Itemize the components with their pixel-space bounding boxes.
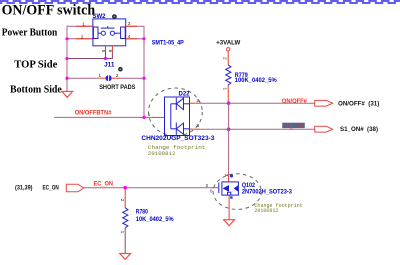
junction dot left vertical bottom wire: [65, 57, 68, 60]
svg-text:2: 2: [206, 183, 209, 189]
wire ON/OFFBTN#: [54, 116, 152, 118]
wire right vertical from SW2 pins 3,4: [126, 26, 144, 117]
svg-text:Power Button: Power Button: [2, 27, 58, 39]
junction dot S1_ON#/drain: [227, 127, 231, 131]
Q102 source loop detail: [228, 192, 231, 195]
wire J11 pin1 stub red: [99, 77, 105, 79]
top dashed border line row 1: [0, 0, 400, 2]
wire SW2 pin1 red stub: [76, 25, 93, 27]
svg-text:EC_ON: EC_ON: [43, 184, 60, 191]
Q102 source pin mark blue: [230, 196, 232, 198]
wire drain vertical: [228, 103, 230, 174]
wire SW2 pin6 red: [111, 46, 113, 51]
svg-text:+3VALW: +3VALW: [216, 39, 241, 46]
wire EC_ON net: [84, 187, 210, 189]
ground Q102: [223, 220, 235, 226]
junction dot R779/drain: [227, 101, 231, 105]
junction dot EC_ON/R780: [123, 186, 127, 190]
wire R780 top stub red: [124, 188, 126, 208]
svg-text:TOP Side: TOP Side: [14, 59, 57, 71]
highlighted net label S1_ON#: [282, 123, 305, 128]
wire J11 to right vertical: [120, 77, 144, 79]
svg-text:CHN202UGP_SOT323-3: CHN202UGP_SOT323-3: [141, 135, 214, 142]
svg-text:ON/OFF#: ON/OFF#: [282, 98, 308, 105]
wire S1_ON# net: [200, 128, 315, 130]
svg-text:2: 2: [116, 73, 119, 79]
marker dot SW2: [112, 14, 117, 19]
svg-text:1: 1: [222, 88, 228, 91]
svg-text:S1_ON# (38): S1_ON# (38): [340, 126, 378, 133]
wire SW2 pin2 red stub: [76, 38, 93, 40]
port S1_ON# output: [315, 126, 333, 132]
junction dot right vertical pin4: [142, 37, 145, 40]
resistor R780: [123, 208, 128, 228]
transistor Q102: [219, 182, 239, 195]
wire SW2 pin3 red stub: [126, 25, 137, 27]
resistor R779: [226, 65, 231, 85]
switch SW2: [93, 19, 126, 46]
wire R780 bottom to ground: [124, 228, 126, 253]
Q102 body arrow left: [223, 185, 230, 192]
dashed change ellipse around Q102: [213, 174, 261, 210]
marker dot J11: [118, 67, 123, 72]
wire ON/OFF# net: [200, 102, 315, 104]
wire Q102 source red: [228, 195, 230, 220]
top dashed border line row 2: [0, 2, 400, 4]
wire Q102 gate red stub: [210, 187, 218, 189]
svg-text:J11: J11: [104, 62, 115, 69]
svg-text:EC_ON: EC_ON: [94, 180, 114, 187]
junction dot SW2 bottom: [104, 57, 107, 60]
svg-text:100K_0402_5%: 100K_0402_5%: [235, 78, 278, 84]
ground TOP (below Bottom Side): [61, 91, 73, 97]
dual diode D22: [165, 97, 190, 136]
wire D22 pin1 red stub: [152, 116, 165, 118]
svg-text:20100812: 20100812: [254, 207, 278, 214]
svg-text:10K_0402_5%: 10K_0402_5%: [136, 217, 174, 223]
dashed change ellipse around D22: [149, 88, 203, 136]
junction dot left vertical pin2: [65, 37, 68, 40]
wire SW2 bottom joining: [67, 51, 112, 59]
svg-text:R780: R780: [136, 210, 149, 216]
wire left vertical net: [67, 26, 93, 91]
svg-text:ON/OFF# (31): ON/OFF# (31): [338, 101, 379, 108]
junction dot left vertical J11: [65, 77, 68, 80]
svg-text:3: 3: [223, 174, 229, 177]
wire J11 row: [67, 77, 99, 79]
port EC_ON input: [66, 184, 84, 191]
wire D22 pin2 red stub: [190, 102, 201, 104]
wire SW2 pin5 red: [105, 46, 107, 51]
wire SW2 pin4 to right vertical: [126, 38, 144, 40]
svg-text:1: 1: [119, 231, 125, 234]
svg-text:2N7002H_SOT23-3: 2N7002H_SOT23-3: [242, 190, 293, 196]
junction dot D22 pin1: [142, 116, 145, 119]
svg-text:ON/OFFBTN#: ON/OFFBTN#: [75, 109, 112, 116]
svg-text:1: 1: [82, 21, 85, 27]
wire SW2 pin4 red stub: [126, 38, 137, 40]
jumper J11 symbol: [106, 75, 112, 82]
wire SW2 pin2 to left vertical: [67, 38, 93, 40]
junction dot right vertical J11: [142, 77, 145, 80]
svg-text:20100812: 20100812: [148, 150, 176, 157]
svg-text:2: 2: [222, 57, 228, 60]
ground R780: [119, 254, 131, 260]
svg-text:SHORT PADS: SHORT PADS: [99, 84, 136, 91]
svg-text:(31,39): (31,39): [15, 184, 33, 191]
svg-text:Bottom Side: Bottom Side: [10, 84, 62, 96]
wire R779 top stub red: [227, 51, 229, 65]
Q102 drain pin dot blue: [230, 174, 233, 177]
wire J11 pin2 stub red: [112, 77, 120, 79]
svg-text:D22: D22: [179, 90, 191, 97]
wire drain red stub: [228, 174, 230, 182]
svg-text:1: 1: [98, 73, 101, 79]
svg-text:SMT1-05_4P: SMT1-05_4P: [152, 39, 184, 46]
svg-text:S1_ON#: S1_ON#: [283, 123, 304, 130]
svg-text:ON/OFF switch: ON/OFF switch: [2, 2, 96, 18]
svg-text:Q102: Q102: [242, 183, 256, 189]
svg-text:SW2: SW2: [93, 13, 107, 20]
power +3VALW symbol: [227, 48, 230, 51]
port ON/OFF# output: [315, 100, 333, 106]
wire R779 bottom stub red: [227, 85, 229, 103]
svg-text:2: 2: [119, 199, 125, 202]
wire D22 pin3 red stub: [190, 128, 201, 130]
wire SW2 pin5 to bottom: [105, 51, 107, 59]
svg-text:3: 3: [196, 123, 199, 129]
Q102 body arrow right: [234, 185, 239, 192]
svg-text:2: 2: [81, 34, 84, 40]
svg-text:0: 0: [210, 188, 213, 194]
